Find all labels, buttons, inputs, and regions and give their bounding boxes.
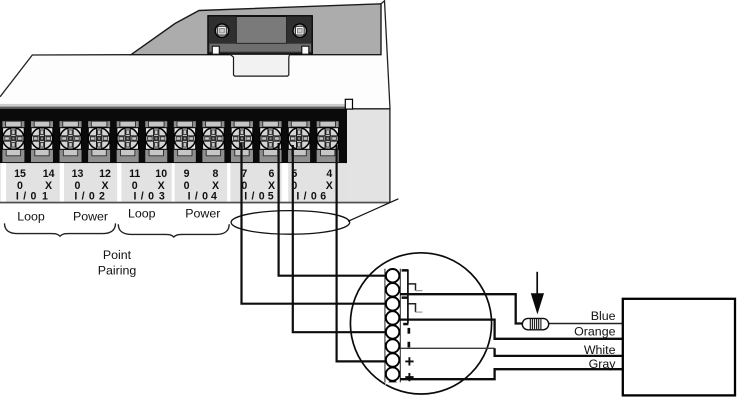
terminal screw 13	[60, 121, 82, 162]
wire Gray from detail screw 8	[400, 369, 622, 379]
detail screw 5	[386, 325, 399, 338]
notch tab	[345, 99, 352, 109]
svg-text:3: 3	[159, 190, 165, 202]
terminal screw 9	[174, 121, 196, 162]
terminal pair label I/O 5	[241, 168, 275, 202]
svg-text:Point: Point	[103, 248, 132, 262]
svg-text:Loop: Loop	[128, 206, 156, 220]
svg-text:Power: Power	[73, 210, 108, 224]
connector screw left	[215, 24, 229, 38]
svg-text:I / 0: I / 0	[16, 190, 37, 202]
svg-text:6: 6	[320, 190, 326, 202]
svg-text:Pairing: Pairing	[98, 263, 137, 277]
module housing white face	[0, 1, 390, 203]
wire Blue from detail screw 2	[400, 294, 522, 323]
wire terminal 5 to detail circle 5	[293, 145, 385, 332]
terminal screw 12	[88, 121, 110, 162]
terminal strip top shadow band	[0, 104, 347, 107]
svg-text:9: 9	[184, 168, 190, 180]
ellipse highlight around terminals 7-4	[231, 211, 350, 235]
svg-text:White: White	[584, 343, 616, 357]
svg-text:I / 0: I / 0	[296, 190, 317, 202]
detail screw 7	[386, 353, 399, 366]
detail screw 8	[386, 367, 399, 380]
connector bottom rail	[209, 44, 311, 52]
wire White from detail screw 6	[400, 347, 494, 349]
detail terminal strip	[385, 269, 401, 383]
svg-text:8: 8	[213, 168, 219, 180]
minus mark 1	[408, 328, 411, 334]
contact symbol 2	[408, 304, 415, 312]
svg-text:I / 0: I / 0	[244, 190, 265, 202]
label strip background	[0, 163, 347, 202]
terminal pair label I/O 3	[129, 168, 167, 202]
detail screw 3	[386, 297, 399, 310]
label strip bottom edge	[0, 202, 390, 204]
terminal screw 7	[231, 121, 253, 162]
terminal screw 11	[117, 121, 139, 162]
right side face	[347, 109, 390, 202]
detail screw 4	[386, 311, 399, 324]
terminal pair label I/O 4	[184, 168, 219, 202]
contact symbol 1	[408, 284, 415, 291]
svg-text:Loop: Loop	[17, 210, 45, 224]
label strip separators	[1, 163, 288, 202]
center latch tab	[230, 54, 290, 76]
terminal pair label I/O 6	[291, 168, 332, 202]
wire terminal 6 to detail circle 1	[279, 143, 385, 276]
svg-text:12: 12	[99, 168, 111, 180]
svg-text:Power: Power	[185, 206, 220, 220]
mounting tab right	[302, 46, 309, 54]
svg-text:11: 11	[129, 168, 140, 180]
svg-text:I / 0: I / 0	[134, 190, 155, 202]
terminal screw 14	[31, 121, 53, 162]
svg-text:Gray: Gray	[589, 357, 617, 371]
svg-text:Orange: Orange	[574, 325, 615, 339]
svg-text:X: X	[326, 180, 333, 192]
wire terminal 7 to detail circle 3	[242, 143, 386, 304]
connector block U1	[208, 16, 312, 54]
detail screw 2	[386, 283, 399, 296]
housing top ridge	[131, 4, 381, 55]
terminal screw 15	[2, 121, 24, 162]
plus mark 1	[405, 357, 413, 365]
svg-text:4: 4	[326, 168, 332, 180]
resistor (EOL)	[522, 318, 548, 329]
terminal screw 5	[288, 121, 310, 162]
terminal pair label I/O 1	[14, 168, 54, 202]
svg-text:Blue: Blue	[591, 309, 616, 323]
housing left slanted edge	[0, 55, 131, 97]
svg-text:6: 6	[269, 168, 275, 180]
svg-text:1: 1	[42, 190, 48, 202]
brace under pair 3-4	[118, 224, 229, 237]
mounting tab left	[212, 46, 219, 54]
connector screw right	[293, 24, 307, 38]
leader line from ellipse	[348, 199, 398, 222]
device box	[623, 299, 735, 396]
detail screw 6	[386, 339, 399, 352]
terminal screw 10	[145, 121, 167, 162]
connector center insert	[236, 17, 286, 44]
plus mark 2	[405, 373, 413, 381]
minus mark 2	[408, 342, 411, 348]
pairing bracket	[407, 270, 409, 324]
housing right outer edge	[381, 1, 390, 109]
wire Orange from detail screw 4	[400, 320, 622, 339]
detail screw 1	[386, 269, 399, 282]
svg-text:I / 0: I / 0	[74, 190, 95, 202]
detail magnifier circle	[350, 253, 491, 394]
terminal strip black band	[0, 109, 347, 164]
arrow pointing at resistor	[536, 272, 538, 296]
strip wedge highlights	[385, 264, 399, 385]
svg-text:I / 0: I / 0	[188, 190, 209, 202]
brace under pair 1-2	[5, 223, 116, 236]
terminal screw 6	[260, 121, 282, 162]
svg-text:5: 5	[268, 190, 274, 202]
wire terminal 4 to detail circle 7	[337, 145, 385, 361]
svg-text:2: 2	[99, 190, 105, 202]
terminal screw 8	[202, 121, 224, 162]
svg-text:10: 10	[155, 168, 167, 180]
svg-text:14: 14	[43, 168, 55, 180]
terminal screw 4	[317, 121, 339, 162]
svg-text:13: 13	[72, 168, 84, 180]
svg-text:4: 4	[211, 190, 217, 202]
terminal pair label I/O 2	[72, 168, 111, 202]
svg-text:15: 15	[14, 168, 26, 180]
